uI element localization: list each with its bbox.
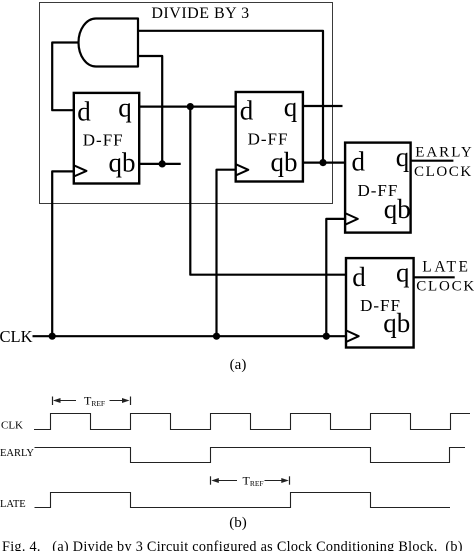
svg-text:LATE: LATE (422, 259, 470, 276)
svg-text:qb: qb (271, 147, 298, 177)
wire: CLK bus (33, 335, 347, 337)
net label LATE CLOCK (416, 259, 474, 295)
svg-text:EARLY: EARLY (415, 145, 474, 161)
svg-text:(a): (a) (230, 357, 247, 373)
svg-text:DIVIDE BY 3: DIVIDE BY 3 (151, 5, 249, 22)
flip-flop LATE (346, 258, 414, 347)
svg-text:d: d (77, 97, 91, 127)
block boundary: DIVIDE BY 3 box (40, 3, 333, 204)
svg-text:d: d (240, 95, 254, 125)
waveform LATE (35, 493, 451, 508)
junction: CLK to FF1 clock (49, 333, 56, 340)
svg-text:EARLY: EARLY (0, 448, 34, 459)
flip-flop EARLY (345, 143, 411, 233)
wire: FF1.qb stub (139, 163, 181, 165)
wire: AND input1 from FF2.qb feedback (138, 31, 323, 163)
flip-flop FF1 (74, 93, 139, 184)
svg-text:CLK: CLK (1, 419, 23, 431)
wire: FF1.q to FF2.d (139, 105, 236, 107)
wire: FF1.q branch to LATE.d (190, 107, 346, 275)
junction: FF2.qb node (319, 159, 326, 166)
junction: FF1.qb node (159, 160, 166, 167)
wire: FF2.qb to EARLY.d (303, 162, 345, 164)
wire: EARLY FF clock (326, 219, 345, 336)
wire: FF2.q stub (303, 105, 343, 107)
svg-text:LATE: LATE (0, 499, 26, 510)
junction: FF1.q node (187, 103, 194, 110)
wire: AND input2 from FF1.qb feedback (138, 56, 162, 164)
wire: LATE.q output (414, 276, 455, 278)
junction: CLK to FF2 clock (213, 333, 220, 340)
waveform CLK (34, 414, 470, 430)
wire: FF2 clock (217, 170, 236, 337)
svg-text:CLOCK: CLOCK (416, 278, 474, 294)
svg-text:D-FF: D-FF (83, 130, 124, 149)
svg-text:d: d (352, 146, 366, 176)
svg-text:q: q (396, 258, 410, 288)
wire: EARLY.q output (411, 160, 454, 162)
svg-text:qb: qb (384, 194, 411, 224)
and-gate G1 (79, 19, 139, 67)
svg-text:Fig. 4. (a) Divide by 3 Circ: Fig. 4. (a) Divide by 3 Circuit configur… (2, 539, 463, 551)
svg-text:CLOCK: CLOCK (414, 164, 473, 180)
waveform EARLY (35, 448, 466, 463)
svg-text:CLK: CLK (0, 327, 33, 346)
junction: CLK to EARLY clock (323, 333, 330, 340)
wire: AND output to FF1.d (52, 43, 79, 111)
svg-text:D-FF: D-FF (248, 129, 289, 148)
svg-text:qb: qb (109, 148, 136, 178)
svg-text:q: q (284, 92, 298, 122)
svg-text:d: d (352, 262, 366, 292)
wire: FF1 clock (52, 171, 74, 336)
svg-text:q: q (396, 142, 410, 172)
annotation T_REF (CLK) (53, 393, 131, 408)
svg-text:q: q (118, 93, 132, 123)
annotation T_REF (EARLY to LATE) (211, 473, 290, 488)
svg-text:(b): (b) (229, 515, 247, 531)
net label EARLY CLOCK (414, 145, 474, 180)
svg-text:qb: qb (383, 308, 410, 338)
flip-flop FF2 (236, 92, 303, 182)
